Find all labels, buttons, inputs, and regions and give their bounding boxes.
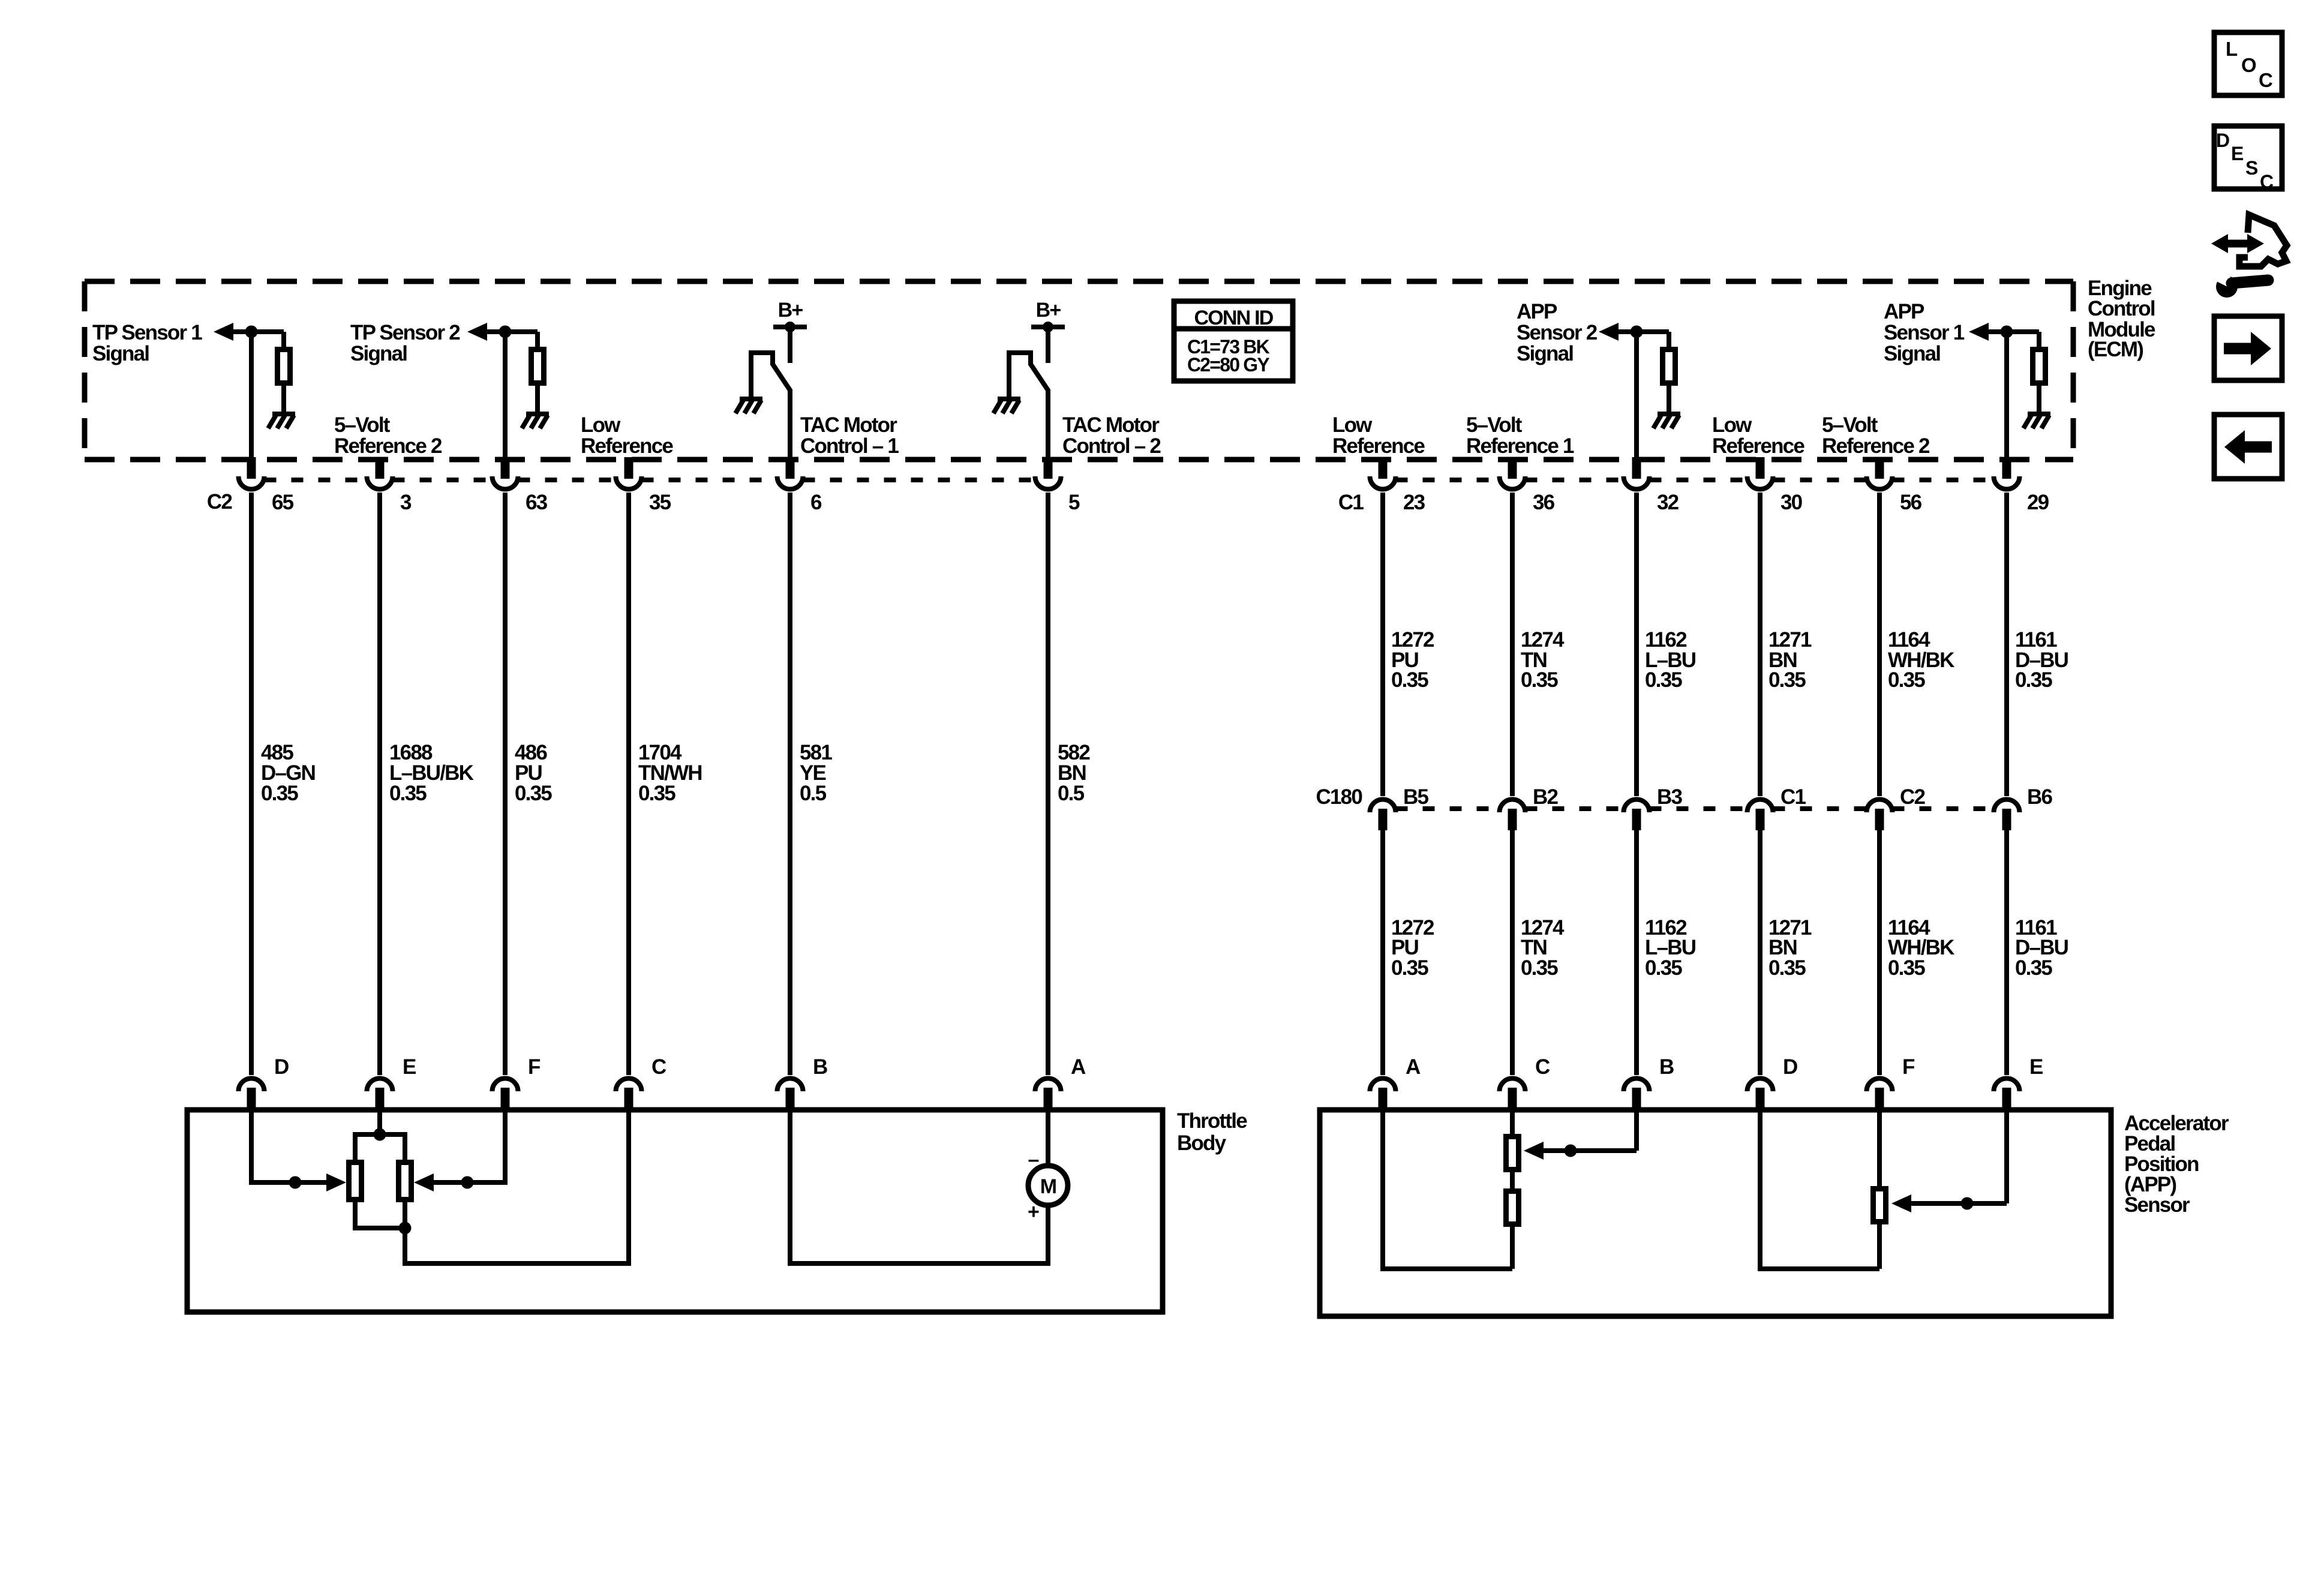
label APP Sensor 1 [1884, 300, 1965, 365]
svg-text:Reference: Reference [1332, 434, 1425, 458]
label TAC Motor Control - 2 [1062, 413, 1161, 458]
APP sensor pin C connector cup [1500, 1079, 1526, 1092]
svg-text:B+: B+ [778, 299, 803, 322]
svg-text:E: E [403, 1055, 416, 1079]
wire label 1272 PU 0.35 (lower) [1391, 916, 1434, 980]
C180 cavity B2 connector cup [1500, 800, 1526, 813]
ECM pin 30 connector stub [1756, 457, 1765, 479]
APP pot 1 middle link [1510, 1172, 1515, 1188]
vehicle-wiring icon (harness outline) [2239, 215, 2287, 266]
wire label 1271 BN 0.35 (lower) [1768, 916, 1812, 980]
svg-text:Control: Control [2088, 297, 2155, 320]
label TP Sensor 2 [350, 321, 460, 365]
throttle body pin D connector cup [239, 1079, 265, 1092]
ECM C1 connector dotted interface line (right) [1396, 478, 1994, 482]
label Engine Control Module (ECM) [2088, 277, 2155, 361]
svg-text:Reference 1: Reference 1 [1466, 434, 1574, 458]
TAC motor control 2 driver switch [1009, 353, 1049, 460]
label Accelerator Pedal Position (APP) Sensor [2124, 1112, 2229, 1217]
svg-text:S: S [2245, 157, 2258, 179]
svg-text:C: C [651, 1055, 666, 1079]
TP pot wiper arrow 1 [326, 1173, 346, 1191]
svg-text:Reference 2: Reference 2 [1822, 434, 1930, 458]
svg-text:C: C [2259, 69, 2272, 91]
svg-text:Low: Low [1712, 413, 1752, 437]
forward arrow icon box [2214, 316, 2282, 380]
throttle body pin D stub [247, 1088, 256, 1112]
ECM pin 3 connector cup [367, 476, 393, 490]
svg-text:TP Sensor 2: TP Sensor 2 [350, 321, 460, 344]
svg-text:A: A [1406, 1055, 1421, 1079]
throttle body pin E connector cup [367, 1079, 393, 1092]
APP sensor pin B stub [1632, 1088, 1641, 1112]
wire 486 PU vertical run [503, 493, 508, 1075]
wire 1688 L-BU/BK vertical run [377, 493, 382, 1075]
svg-text:35: 35 [649, 491, 671, 514]
DESC icon box [2214, 126, 2282, 193]
wire label 1162 L–BU 0.35 (lower) [1645, 916, 1696, 980]
APP Sensor 1 signal arrow and junction [1969, 323, 2039, 460]
throttle body pin B stub [786, 1088, 795, 1112]
ECM pin 3 connector stub [376, 457, 385, 479]
ECM pin 63 connector stub [501, 457, 510, 479]
ECM pin 6 connector stub [786, 457, 795, 479]
label TP Sensor 1 [92, 321, 202, 365]
svg-text:B3: B3 [1657, 785, 1682, 809]
svg-text:L: L [2226, 38, 2238, 60]
svg-text:(ECM): (ECM) [2088, 338, 2143, 361]
svg-text:C1: C1 [1780, 785, 1806, 809]
APP Sensor 2 resistor lead wire [1667, 386, 1671, 414]
svg-text:A: A [1071, 1055, 1086, 1079]
throttle body pin C connector cup [616, 1079, 642, 1092]
svg-text:APP: APP [1884, 300, 1924, 323]
ground under TAC 1 switch [735, 399, 762, 413]
svg-text:D: D [1783, 1055, 1797, 1079]
TP Sensor 2 resistor lead wire [535, 386, 540, 414]
wire label 1164 WH/BK 0.35 (lower) [1888, 916, 1954, 980]
svg-text:0.35: 0.35 [1768, 956, 1806, 980]
CONN ID table box [1174, 301, 1293, 381]
APP sensor pin F connector cup [1867, 1079, 1893, 1092]
svg-text:Control – 2: Control – 2 [1062, 434, 1161, 458]
APP sensor pin E stub [2002, 1088, 2011, 1112]
wire 1164 WH/BK upper run [1877, 493, 1882, 796]
svg-text:0.35: 0.35 [1888, 668, 1925, 692]
wire pin F into APP pot 2 [1877, 1110, 1882, 1186]
C180 cavity B6 stub [2002, 809, 2011, 830]
wire label 582 BN 0.5 [1058, 741, 1090, 805]
svg-text:F: F [1902, 1055, 1915, 1079]
svg-text:Sensor: Sensor [2124, 1193, 2190, 1217]
TP pot wiper arrow 2 [414, 1173, 434, 1191]
wire 1162 L–BU upper run [1634, 493, 1639, 796]
wire label 1164 WH/BK 0.35 (upper) [1888, 628, 1954, 692]
wire pin E to TP pot top [355, 1110, 405, 1160]
svg-text:0.35: 0.35 [2015, 956, 2052, 980]
TP pot bottom link to pin C [355, 1110, 629, 1263]
svg-text:5–Volt: 5–Volt [1822, 413, 1878, 437]
wire label 1161 D–BU 0.35 (upper) [2015, 628, 2068, 692]
svg-text:Throttle: Throttle [1177, 1109, 1247, 1133]
ECM pin 32 connector cup [1624, 476, 1650, 490]
svg-text:E: E [2231, 143, 2244, 164]
svg-text:B: B [1659, 1055, 1674, 1079]
svg-text:Reference: Reference [581, 434, 673, 458]
wire 1161 D–BU upper run [2004, 493, 2009, 796]
ECM pin 65 connector cup [239, 476, 265, 490]
B+ supply terminal TAC 2 [1031, 299, 1065, 363]
wire 582 BN vertical run [1046, 493, 1050, 1075]
svg-text:CONN ID: CONN ID [1194, 307, 1274, 329]
ECM pin 29 connector stub [2002, 457, 2011, 479]
Throttle Body box [187, 1110, 1163, 1312]
back arrow icon box [2214, 415, 2282, 479]
ECM pin 5 connector cup [1035, 476, 1061, 490]
wire label 1161 D–BU 0.35 (lower) [2015, 916, 2068, 980]
wire 1272 PU lower run [1380, 829, 1385, 1075]
label Low Reference (pin 30) [1712, 413, 1804, 458]
svg-text:F: F [528, 1055, 541, 1079]
svg-text:TP Sensor 1: TP Sensor 1 [92, 321, 202, 344]
ECM pin 36 connector stub [1508, 457, 1517, 479]
APP Sensor 2 pull resistor [1663, 350, 1676, 383]
svg-text:0.5: 0.5 [800, 782, 827, 805]
svg-text:B: B [813, 1055, 827, 1079]
C180 cavity B6 connector cup [1994, 800, 2020, 813]
svg-text:C2: C2 [207, 490, 232, 514]
C180 cavity C2 stub [1875, 809, 1884, 830]
APP pot 1 wiper arrow [1524, 1142, 1544, 1160]
wire pin F to TP pot wiper 2 [434, 1110, 505, 1189]
svg-text:0.5: 0.5 [1058, 782, 1085, 805]
svg-text:E: E [2029, 1055, 2043, 1079]
throttle body pin F stub [501, 1088, 510, 1112]
label 5-Volt Reference 2 (pin 56) [1822, 413, 1930, 458]
svg-text:Body: Body [1177, 1131, 1227, 1155]
ECM pin 35 connector stub [624, 457, 633, 479]
wire pin B to TAC motor [790, 1110, 1048, 1263]
C180 cavity C1 stub [1756, 809, 1765, 830]
label TAC Motor Control - 1 [800, 413, 899, 458]
svg-text:0.35: 0.35 [1888, 956, 1925, 980]
wire pin C into APP pot 1 [1510, 1110, 1515, 1134]
svg-text:B6: B6 [2027, 785, 2052, 809]
svg-text:C2=80 GY: C2=80 GY [1187, 354, 1269, 376]
wire label 486 PU 0.35 [515, 741, 552, 805]
label 5-Volt Reference 2 (pin 3) [334, 413, 442, 458]
throttle body pin F connector cup [493, 1079, 518, 1092]
wire 485 D-GN vertical run [249, 493, 254, 1075]
svg-text:B+: B+ [1036, 299, 1061, 322]
wire 581 YE vertical run [788, 493, 792, 1075]
svg-text:M: M [1040, 1175, 1056, 1198]
APP pot 2 bottom lead [1877, 1224, 1882, 1269]
wire label 1274 TN 0.35 (lower) [1521, 916, 1565, 980]
APP sensor pin A stub [1379, 1088, 1388, 1112]
svg-text:32: 32 [1657, 491, 1679, 514]
svg-text:0.35: 0.35 [1521, 668, 1558, 692]
APP sensor 1 resistor upper [1506, 1137, 1519, 1170]
svg-text:Signal: Signal [350, 342, 407, 365]
TP Sensor 2 pull resistor [532, 350, 544, 383]
svg-text:0.35: 0.35 [1391, 668, 1428, 692]
svg-text:0.35: 0.35 [1521, 956, 1558, 980]
wire label 581 YE 0.5 [800, 741, 832, 805]
C180 cavity B5 stub [1379, 809, 1388, 830]
C180 cavity B5 connector cup [1370, 800, 1396, 813]
APP sensor pin D stub [1756, 1088, 1765, 1112]
svg-text:0.35: 0.35 [515, 782, 552, 805]
ECM pin 63 connector cup [493, 476, 518, 490]
svg-text:65: 65 [272, 491, 294, 514]
wire 1271 BN lower run [1758, 829, 1762, 1075]
label Throttle Body [1177, 1109, 1247, 1155]
TP sensor resistor 2 [399, 1163, 412, 1200]
TP Sensor 1 pull resistor [278, 350, 290, 383]
ground under APP Sensor 2 resistor [1653, 414, 1680, 428]
ECM pin 5 connector stub [1044, 457, 1053, 479]
svg-text:Low: Low [581, 413, 621, 437]
svg-text:Signal: Signal [1517, 342, 1573, 365]
ground under APP Sensor 1 resistor [2023, 414, 2050, 428]
svg-text:O: O [2241, 54, 2256, 76]
svg-text:0.35: 0.35 [389, 782, 427, 805]
APP sensor 1 resistor lower [1506, 1191, 1519, 1224]
svg-text:TAC Motor: TAC Motor [800, 413, 897, 437]
C180 cavity B3 connector cup [1624, 800, 1650, 813]
C180 cavity C2 connector cup [1867, 800, 1893, 813]
C180 inline connector dotted line [1396, 806, 1994, 811]
svg-text:C2: C2 [1900, 785, 1925, 809]
throttle body pin E stub [376, 1088, 385, 1112]
svg-text:0.35: 0.35 [1645, 668, 1682, 692]
svg-text:–: – [1028, 1148, 1038, 1171]
APP sensor pin A connector cup [1370, 1079, 1396, 1092]
ECM pin 6 connector cup [777, 476, 803, 490]
svg-text:0.35: 0.35 [1391, 956, 1428, 980]
ground under TAC 2 switch [993, 399, 1020, 413]
svg-text:30: 30 [1780, 491, 1803, 514]
svg-text:C180: C180 [1316, 785, 1363, 809]
svg-text:5: 5 [1068, 491, 1080, 514]
wire label 1274 TN 0.35 (upper) [1521, 628, 1565, 692]
APP Sensor 2 signal arrow and junction [1599, 323, 1669, 460]
vehicle-wiring icon (wrench) [2213, 269, 2268, 298]
wire 1271 BN upper run [1758, 493, 1762, 796]
ECM pin 35 connector cup [616, 476, 642, 490]
svg-text:0.35: 0.35 [2015, 668, 2052, 692]
ECM C2 connector dotted interface line (left) [265, 478, 1035, 482]
TAC motor M [1028, 1110, 1068, 1205]
svg-text:Low: Low [1332, 413, 1373, 437]
wire 1161 D–BU lower run [2004, 829, 2009, 1075]
ECM pin 36 connector cup [1500, 476, 1526, 490]
wire label 1704 TN/WH 0.35 [638, 741, 702, 805]
label APP Sensor 2 [1517, 300, 1598, 365]
svg-text:Sensor 2: Sensor 2 [1517, 321, 1598, 344]
wire label 1271 BN 0.35 (upper) [1768, 628, 1812, 692]
svg-text:APP: APP [1517, 300, 1557, 323]
svg-text:3: 3 [400, 491, 412, 514]
svg-text:C: C [2260, 171, 2274, 193]
svg-text:TAC Motor: TAC Motor [1062, 413, 1160, 437]
svg-text:Sensor 1: Sensor 1 [1884, 321, 1965, 344]
ECM pin 23 connector cup [1370, 476, 1396, 490]
vehicle-wiring icon (double arrow) [2211, 234, 2264, 253]
svg-text:Reference: Reference [1712, 434, 1804, 458]
svg-text:C: C [1535, 1055, 1550, 1079]
APP pot 1 bottom lead [1510, 1227, 1515, 1269]
svg-text:5–Volt: 5–Volt [1466, 413, 1523, 437]
svg-text:Signal: Signal [1884, 342, 1940, 365]
svg-text:D: D [274, 1055, 289, 1079]
label Low Reference (pin 35) [581, 413, 673, 458]
wire pin D to TP pot wiper 1 [251, 1110, 326, 1189]
wire pin E to APP pot 2 wiper [1911, 1110, 2007, 1210]
ECM pin 56 connector stub [1875, 457, 1884, 479]
svg-text:23: 23 [1403, 491, 1425, 514]
TP Sensor 2 signal arrow and junction [467, 323, 538, 460]
label Low Reference (pin 23) [1332, 413, 1425, 458]
wire label 485 D–GN 0.35 [261, 741, 315, 805]
TP sensor resistor 1 [349, 1163, 362, 1200]
wire 1704 TN/WH vertical run [626, 493, 631, 1075]
TAC motor control 1 driver switch [751, 353, 791, 460]
ground under TP Sensor 1 resistor [268, 414, 295, 428]
svg-text:+: + [1028, 1200, 1039, 1223]
ECM module dashed boundary box [85, 281, 2073, 460]
C180 cavity B2 stub [1508, 809, 1517, 830]
throttle body pin B connector cup [777, 1079, 803, 1092]
wire label 1162 L–BU 0.35 (upper) [1645, 628, 1696, 692]
wire label 1688 L–BU/BK 0.35 [389, 741, 474, 805]
APP sensor 2 resistor [1873, 1189, 1886, 1222]
throttle body pin A stub [1044, 1088, 1053, 1112]
svg-text:36: 36 [1533, 491, 1555, 514]
APP sensor pin E connector cup [1994, 1079, 2020, 1092]
svg-text:C1: C1 [1338, 491, 1364, 514]
wire pin A to APP pot 1 bottom [1383, 1110, 1512, 1269]
throttle body pin A connector cup [1035, 1079, 1061, 1092]
LOC icon box [2214, 32, 2282, 95]
wire pin B to APP pot 1 wiper [1544, 1110, 1637, 1157]
ECM pin 29 connector cup [1994, 476, 2020, 490]
TP Sensor 1 signal arrow and junction [214, 323, 284, 460]
label 5-Volt Reference 1 (pin 36) [1466, 413, 1574, 458]
svg-text:D: D [2216, 130, 2229, 151]
svg-text:0.35: 0.35 [1645, 956, 1682, 980]
svg-text:Reference 2: Reference 2 [334, 434, 442, 458]
ECM pin 65 connector stub [247, 457, 256, 479]
svg-text:56: 56 [1900, 491, 1922, 514]
wire 1272 PU upper run [1380, 493, 1385, 796]
APP pot 2 wiper arrow [1891, 1194, 1911, 1212]
svg-text:B5: B5 [1403, 785, 1428, 809]
APP Sensor 1 pull resistor [2033, 350, 2046, 383]
ECM pin 23 connector stub [1379, 457, 1388, 479]
throttle body pin C stub [624, 1088, 633, 1112]
wire 1164 WH/BK lower run [1877, 829, 1882, 1075]
ECM pin 56 connector cup [1867, 476, 1893, 490]
C180 cavity B3 stub [1632, 809, 1641, 830]
ground under TP Sensor 2 resistor [522, 414, 549, 428]
svg-text:Signal: Signal [92, 342, 149, 365]
svg-text:63: 63 [526, 491, 548, 514]
C180 cavity C1 connector cup [1747, 800, 1773, 813]
svg-text:B2: B2 [1533, 785, 1558, 809]
wire label 1272 PU 0.35 (upper) [1391, 628, 1434, 692]
svg-text:6: 6 [810, 491, 822, 514]
wire 1274 TN lower run [1510, 829, 1515, 1075]
svg-text:0.35: 0.35 [1768, 668, 1806, 692]
wire pin D to APP pot 2 bottom [1760, 1110, 1879, 1269]
APP sensor pin B connector cup [1624, 1079, 1650, 1092]
ECM pin 30 connector cup [1747, 476, 1773, 490]
svg-text:5–Volt: 5–Volt [334, 413, 391, 437]
TP Sensor 1 resistor lead wire [281, 386, 286, 414]
APP sensor pin F stub [1875, 1088, 1884, 1112]
APP sensor pin D connector cup [1747, 1079, 1773, 1092]
svg-text:29: 29 [2027, 491, 2049, 514]
APP Sensor 1 resistor lead wire [2037, 386, 2041, 414]
B+ supply terminal TAC 1 [773, 299, 807, 363]
wire 1274 TN upper run [1510, 493, 1515, 796]
svg-text:Control – 1: Control – 1 [800, 434, 899, 458]
ECM pin 32 connector stub [1632, 457, 1641, 479]
Accelerator Pedal Position Sensor box [1320, 1110, 2111, 1316]
wire 1162 L–BU lower run [1634, 829, 1639, 1075]
APP sensor pin C stub [1508, 1088, 1517, 1112]
svg-text:0.35: 0.35 [638, 782, 675, 805]
svg-text:0.35: 0.35 [261, 782, 298, 805]
